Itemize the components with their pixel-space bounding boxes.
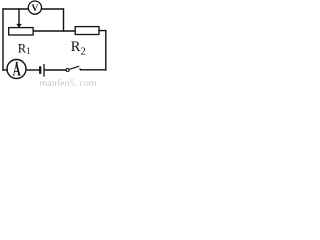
svg-text:R1: R1 — [18, 41, 31, 56]
svg-text:V: V — [31, 4, 38, 14]
svg-text:R2: R2 — [71, 39, 86, 58]
svg-text:manfen5. com: manfen5. com — [40, 79, 97, 86]
